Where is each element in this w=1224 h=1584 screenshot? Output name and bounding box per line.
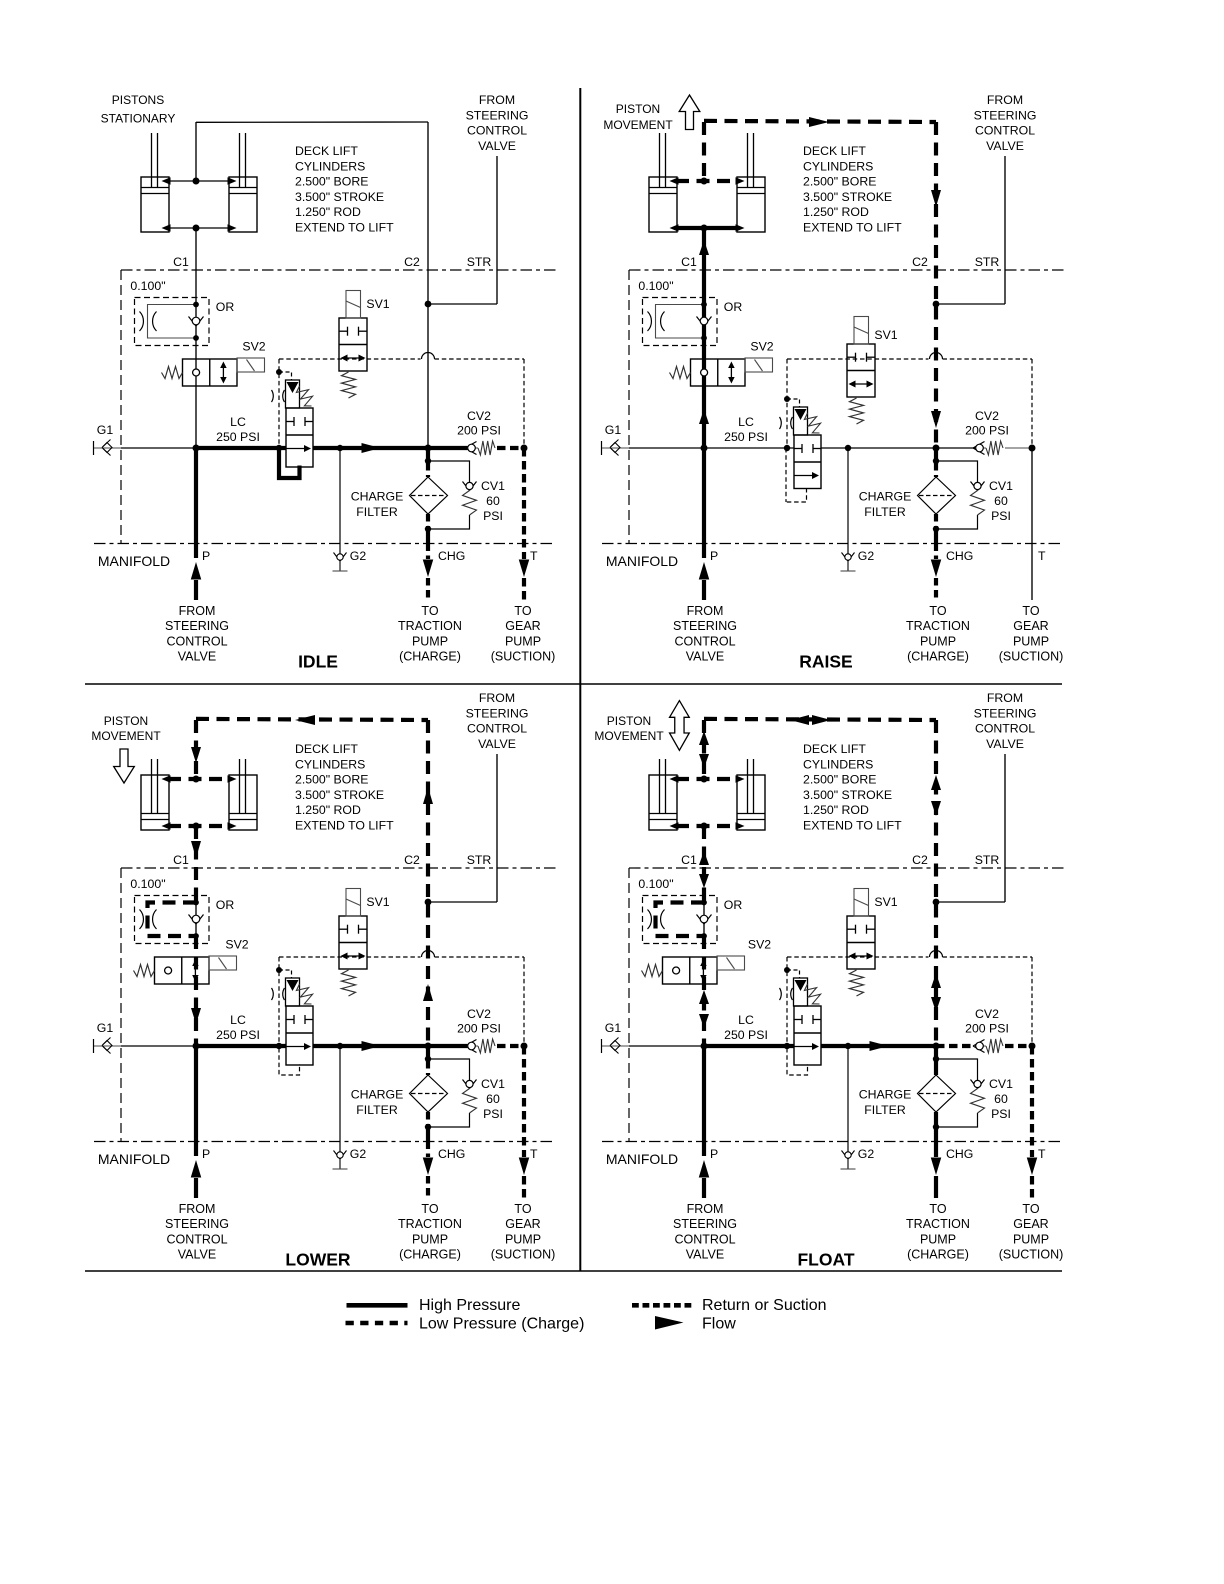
- svg-text:T: T: [1038, 1147, 1046, 1161]
- svg-text:1.250" ROD: 1.250" ROD: [803, 205, 869, 219]
- svg-text:T: T: [530, 1147, 538, 1161]
- svg-text:TO: TO: [929, 604, 946, 618]
- svg-text:TO: TO: [421, 1202, 438, 1216]
- svg-text:DECK LIFT: DECK LIFT: [295, 742, 358, 756]
- svg-text:TO: TO: [514, 604, 531, 618]
- svg-text:P: P: [710, 549, 718, 563]
- svg-text:DECK LIFT: DECK LIFT: [803, 742, 866, 756]
- svg-text:(CHARGE): (CHARGE): [907, 650, 969, 664]
- svg-text:PUMP: PUMP: [505, 1232, 541, 1246]
- svg-text:200 PSI: 200 PSI: [457, 1022, 501, 1036]
- svg-text:SV2: SV2: [750, 340, 773, 354]
- svg-text:CONTROL: CONTROL: [674, 1232, 735, 1246]
- svg-text:(CHARGE): (CHARGE): [399, 1248, 461, 1262]
- svg-text:C1: C1: [173, 255, 189, 269]
- svg-text:TO: TO: [1022, 604, 1039, 618]
- svg-text:OR: OR: [724, 300, 743, 314]
- svg-text:FROM: FROM: [179, 604, 216, 618]
- svg-text:VALVE: VALVE: [986, 737, 1024, 751]
- svg-text:3.500" STROKE: 3.500" STROKE: [803, 788, 892, 802]
- svg-text:TRACTION: TRACTION: [906, 1217, 970, 1231]
- svg-text:EXTEND TO LIFT: EXTEND TO LIFT: [295, 819, 394, 833]
- svg-text:FROM: FROM: [479, 691, 515, 705]
- svg-text:PSI: PSI: [991, 1107, 1011, 1121]
- svg-text:SV1: SV1: [874, 895, 897, 909]
- svg-text:(CHARGE): (CHARGE): [907, 1248, 969, 1262]
- svg-text:FROM: FROM: [687, 1202, 724, 1216]
- svg-text:PUMP: PUMP: [1013, 634, 1049, 648]
- svg-text:P: P: [710, 1147, 718, 1161]
- svg-text:CONTROL: CONTROL: [467, 722, 527, 736]
- svg-text:VALVE: VALVE: [686, 650, 724, 664]
- svg-text:PUMP: PUMP: [412, 634, 448, 648]
- svg-text:CYLINDERS: CYLINDERS: [803, 159, 873, 173]
- svg-text:CONTROL: CONTROL: [674, 634, 735, 648]
- svg-text:CYLINDERS: CYLINDERS: [295, 159, 365, 173]
- svg-text:PSI: PSI: [991, 509, 1011, 523]
- svg-text:1.250" ROD: 1.250" ROD: [295, 803, 361, 817]
- svg-text:CV2: CV2: [467, 1007, 491, 1021]
- svg-text:(SUCTION): (SUCTION): [999, 650, 1064, 664]
- svg-text:CYLINDERS: CYLINDERS: [295, 757, 365, 771]
- svg-text:0.100": 0.100": [638, 877, 673, 891]
- svg-text:PISTON: PISTON: [607, 714, 651, 728]
- svg-text:2.500" BORE: 2.500" BORE: [295, 773, 368, 787]
- svg-text:CHARGE: CHARGE: [859, 490, 912, 504]
- svg-text:CV2: CV2: [975, 409, 999, 423]
- svg-text:G2: G2: [858, 1147, 875, 1161]
- svg-text:2.500" BORE: 2.500" BORE: [295, 175, 368, 189]
- svg-text:VALVE: VALVE: [686, 1248, 724, 1262]
- svg-text:C1: C1: [681, 255, 697, 269]
- svg-text:2.500" BORE: 2.500" BORE: [803, 773, 876, 787]
- svg-text:GEAR: GEAR: [1013, 1217, 1048, 1231]
- svg-text:VALVE: VALVE: [986, 139, 1024, 153]
- svg-text:(SUCTION): (SUCTION): [999, 1248, 1064, 1262]
- svg-text:STEERING: STEERING: [165, 1217, 229, 1231]
- svg-text:MOVEMENT: MOVEMENT: [594, 729, 664, 743]
- svg-text:3.500" STROKE: 3.500" STROKE: [803, 190, 892, 204]
- svg-text:250 PSI: 250 PSI: [724, 1028, 768, 1042]
- svg-text:CV1: CV1: [989, 479, 1013, 493]
- svg-text:MANIFOLD: MANIFOLD: [98, 1151, 170, 1167]
- svg-text:G2: G2: [350, 1147, 367, 1161]
- svg-text:GEAR: GEAR: [505, 619, 540, 633]
- svg-text:Return or Suction: Return or Suction: [702, 1297, 827, 1314]
- svg-text:FROM: FROM: [179, 1202, 216, 1216]
- svg-text:CV2: CV2: [975, 1007, 999, 1021]
- svg-text:PSI: PSI: [483, 509, 503, 523]
- svg-text:60: 60: [486, 494, 500, 508]
- svg-text:PUMP: PUMP: [505, 634, 541, 648]
- svg-text:OR: OR: [216, 300, 235, 314]
- svg-text:250 PSI: 250 PSI: [216, 1028, 260, 1042]
- svg-text:PISTONS: PISTONS: [112, 93, 164, 107]
- svg-text:CV1: CV1: [989, 1077, 1013, 1091]
- svg-text:TO: TO: [1022, 1202, 1039, 1216]
- svg-text:OR: OR: [724, 898, 743, 912]
- svg-text:LOWER: LOWER: [285, 1250, 350, 1270]
- svg-text:LC: LC: [230, 1013, 246, 1027]
- svg-text:STEERING: STEERING: [974, 108, 1037, 122]
- svg-text:C2: C2: [912, 255, 928, 269]
- svg-text:T: T: [530, 549, 538, 563]
- svg-text:STEERING: STEERING: [466, 706, 529, 720]
- svg-text:CV1: CV1: [481, 479, 505, 493]
- svg-text:STEERING: STEERING: [673, 1217, 737, 1231]
- svg-text:3.500" STROKE: 3.500" STROKE: [295, 190, 384, 204]
- svg-text:G2: G2: [858, 549, 875, 563]
- svg-text:PISTON: PISTON: [104, 714, 148, 728]
- svg-text:200 PSI: 200 PSI: [965, 1022, 1009, 1036]
- svg-text:C1: C1: [681, 853, 697, 867]
- svg-text:200 PSI: 200 PSI: [457, 424, 501, 438]
- svg-text:CONTROL: CONTROL: [166, 1232, 227, 1246]
- svg-text:VALVE: VALVE: [478, 139, 516, 153]
- svg-text:CHARGE: CHARGE: [859, 1088, 912, 1102]
- svg-text:250 PSI: 250 PSI: [216, 430, 260, 444]
- svg-text:0.100": 0.100": [130, 279, 165, 293]
- svg-text:SV1: SV1: [874, 328, 897, 342]
- svg-text:STEERING: STEERING: [165, 619, 229, 633]
- svg-text:0.100": 0.100": [130, 877, 165, 891]
- svg-text:EXTEND TO LIFT: EXTEND TO LIFT: [295, 221, 394, 235]
- svg-text:G1: G1: [605, 423, 622, 437]
- svg-text:0.100": 0.100": [638, 279, 673, 293]
- svg-text:PUMP: PUMP: [920, 1232, 956, 1246]
- svg-text:FILTER: FILTER: [864, 505, 906, 519]
- svg-text:FILTER: FILTER: [356, 1103, 398, 1117]
- svg-text:PUMP: PUMP: [1013, 1232, 1049, 1246]
- svg-text:CV1: CV1: [481, 1077, 505, 1091]
- svg-text:G1: G1: [605, 1021, 622, 1035]
- svg-text:CHG: CHG: [438, 1147, 465, 1161]
- svg-text:FILTER: FILTER: [864, 1103, 906, 1117]
- svg-text:STEERING: STEERING: [974, 706, 1037, 720]
- svg-text:TRACTION: TRACTION: [398, 1217, 462, 1231]
- svg-text:(CHARGE): (CHARGE): [399, 650, 461, 664]
- svg-text:Flow: Flow: [702, 1316, 736, 1333]
- svg-text:(SUCTION): (SUCTION): [491, 650, 556, 664]
- svg-text:SV1: SV1: [366, 297, 389, 311]
- svg-text:FROM: FROM: [479, 93, 515, 107]
- svg-text:STEERING: STEERING: [466, 108, 529, 122]
- svg-text:C2: C2: [404, 255, 420, 269]
- svg-text:G1: G1: [97, 423, 114, 437]
- svg-text:P: P: [202, 1147, 210, 1161]
- svg-text:SV1: SV1: [366, 895, 389, 909]
- svg-text:TRACTION: TRACTION: [906, 619, 970, 633]
- svg-text:TO: TO: [514, 1202, 531, 1216]
- svg-text:200 PSI: 200 PSI: [965, 424, 1009, 438]
- svg-text:LC: LC: [738, 1013, 754, 1027]
- svg-text:CHARGE: CHARGE: [351, 1088, 404, 1102]
- svg-text:GEAR: GEAR: [1013, 619, 1048, 633]
- svg-text:60: 60: [994, 494, 1008, 508]
- svg-text:PSI: PSI: [483, 1107, 503, 1121]
- svg-text:SV2: SV2: [748, 938, 771, 952]
- svg-text:MANIFOLD: MANIFOLD: [606, 1151, 678, 1167]
- svg-text:MANIFOLD: MANIFOLD: [98, 553, 170, 569]
- svg-text:DECK LIFT: DECK LIFT: [295, 144, 358, 158]
- svg-text:CHARGE: CHARGE: [351, 490, 404, 504]
- svg-text:1.250" ROD: 1.250" ROD: [803, 803, 869, 817]
- svg-text:60: 60: [994, 1092, 1008, 1106]
- svg-text:2.500" BORE: 2.500" BORE: [803, 175, 876, 189]
- svg-text:C2: C2: [912, 853, 928, 867]
- svg-text:IDLE: IDLE: [298, 652, 338, 672]
- svg-text:(SUCTION): (SUCTION): [491, 1248, 556, 1262]
- svg-text:STR: STR: [467, 853, 492, 867]
- svg-text:GEAR: GEAR: [505, 1217, 540, 1231]
- svg-text:250 PSI: 250 PSI: [724, 430, 768, 444]
- svg-text:PISTON: PISTON: [616, 102, 660, 116]
- svg-text:STEERING: STEERING: [673, 619, 737, 633]
- svg-text:MOVEMENT: MOVEMENT: [91, 729, 161, 743]
- svg-text:CHG: CHG: [438, 549, 465, 563]
- svg-text:FLOAT: FLOAT: [797, 1250, 854, 1270]
- svg-text:60: 60: [486, 1092, 500, 1106]
- svg-text:CONTROL: CONTROL: [975, 124, 1035, 138]
- svg-text:MANIFOLD: MANIFOLD: [606, 553, 678, 569]
- svg-text:CONTROL: CONTROL: [166, 634, 227, 648]
- svg-text:FROM: FROM: [987, 93, 1023, 107]
- svg-text:OR: OR: [216, 898, 235, 912]
- svg-text:FROM: FROM: [687, 604, 724, 618]
- svg-text:DECK LIFT: DECK LIFT: [803, 144, 866, 158]
- svg-text:VALVE: VALVE: [178, 650, 216, 664]
- svg-text:STATIONARY: STATIONARY: [101, 112, 176, 126]
- svg-text:LC: LC: [230, 415, 246, 429]
- svg-text:FILTER: FILTER: [356, 505, 398, 519]
- svg-text:LC: LC: [738, 415, 754, 429]
- svg-text:RAISE: RAISE: [799, 652, 852, 672]
- svg-text:High Pressure: High Pressure: [419, 1297, 520, 1314]
- svg-text:1.250" ROD: 1.250" ROD: [295, 205, 361, 219]
- svg-text:STR: STR: [975, 255, 1000, 269]
- svg-text:TO: TO: [421, 604, 438, 618]
- svg-text:TO: TO: [929, 1202, 946, 1216]
- svg-text:C2: C2: [404, 853, 420, 867]
- svg-text:P: P: [202, 549, 210, 563]
- svg-text:VALVE: VALVE: [478, 737, 516, 751]
- svg-text:VALVE: VALVE: [178, 1248, 216, 1262]
- svg-text:CHG: CHG: [946, 549, 973, 563]
- svg-text:CONTROL: CONTROL: [975, 722, 1035, 736]
- svg-text:Low Pressure (Charge): Low Pressure (Charge): [419, 1316, 584, 1333]
- svg-text:SV2: SV2: [242, 340, 265, 354]
- svg-text:PUMP: PUMP: [920, 634, 956, 648]
- svg-text:CONTROL: CONTROL: [467, 124, 527, 138]
- svg-text:EXTEND TO LIFT: EXTEND TO LIFT: [803, 221, 902, 235]
- svg-text:MOVEMENT: MOVEMENT: [603, 118, 673, 132]
- svg-text:G2: G2: [350, 549, 367, 563]
- svg-text:TRACTION: TRACTION: [398, 619, 462, 633]
- svg-text:EXTEND TO LIFT: EXTEND TO LIFT: [803, 819, 902, 833]
- svg-text:C1: C1: [173, 853, 189, 867]
- svg-text:3.500" STROKE: 3.500" STROKE: [295, 788, 384, 802]
- svg-text:FROM: FROM: [987, 691, 1023, 705]
- svg-text:CYLINDERS: CYLINDERS: [803, 757, 873, 771]
- svg-text:G1: G1: [97, 1021, 114, 1035]
- svg-text:STR: STR: [467, 255, 492, 269]
- svg-text:T: T: [1038, 549, 1046, 563]
- svg-text:STR: STR: [975, 853, 1000, 867]
- svg-text:PUMP: PUMP: [412, 1232, 448, 1246]
- svg-text:SV2: SV2: [225, 938, 248, 952]
- svg-text:CV2: CV2: [467, 409, 491, 423]
- svg-text:CHG: CHG: [946, 1147, 973, 1161]
